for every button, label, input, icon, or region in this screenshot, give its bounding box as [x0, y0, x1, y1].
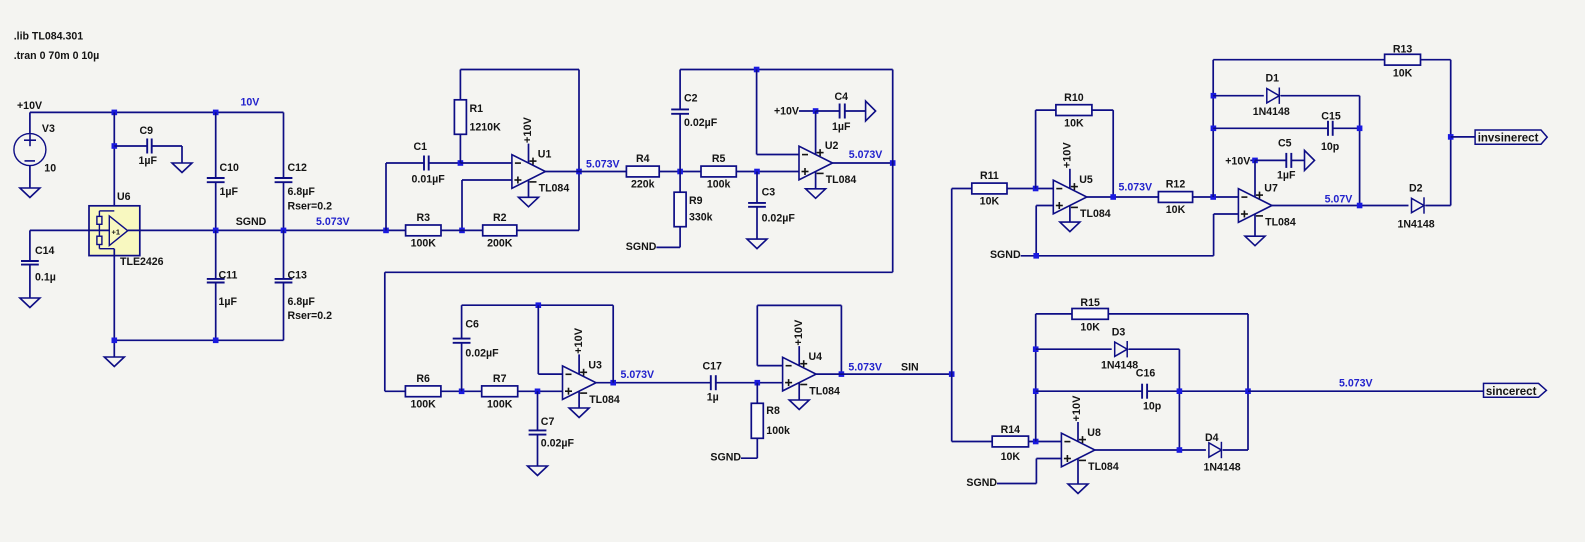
wire R2 to feedback	[517, 229, 579, 231]
svg-text:5.073V: 5.073V	[621, 369, 655, 381]
wire U2 - riser	[756, 70, 758, 155]
svg-text:10K: 10K	[1393, 68, 1413, 80]
wire SIN riser	[951, 189, 953, 442]
wire U3 feedback top	[462, 304, 614, 306]
wire R6 left lead	[385, 390, 406, 392]
wire R3-R2 link	[441, 229, 483, 231]
svg-text:0.02µF: 0.02µF	[465, 347, 499, 359]
diode D1	[1267, 88, 1280, 104]
wire SGND rail	[128, 229, 406, 231]
node +10V rail / C10 column	[213, 110, 219, 116]
svg-text:R8: R8	[766, 405, 780, 417]
wire C1 riser	[385, 163, 387, 230]
resistor R4	[626, 153, 659, 191]
svg-text:+10V: +10V	[17, 100, 42, 112]
wire D1-C15 riser	[1359, 96, 1361, 206]
svg-text:R6: R6	[416, 373, 430, 385]
svg-text:0.02µF: 0.02µF	[684, 117, 718, 129]
node +10V / C4 node	[813, 108, 819, 114]
svg-text:C13: C13	[288, 269, 308, 281]
svg-text:10: 10	[44, 162, 56, 174]
op-amp U8	[1061, 422, 1095, 484]
svg-text:D3: D3	[1112, 327, 1126, 339]
wire U6 output drop	[113, 249, 115, 357]
wire C6 bottom lead	[461, 343, 463, 392]
svg-text:U4: U4	[809, 351, 823, 363]
diode D4	[1209, 442, 1222, 458]
capacitor C5	[1277, 138, 1296, 182]
wire R14 to U8 -	[1029, 441, 1062, 443]
svg-text:TL084: TL084	[1265, 217, 1296, 229]
wire D1 left lead	[1213, 95, 1264, 97]
wire U7 non-inverting input	[1214, 213, 1239, 215]
wire C1 right lead	[429, 162, 461, 164]
svg-text:C6: C6	[465, 319, 479, 331]
wire U7 + riser	[1213, 214, 1215, 256]
wire R11 to U5 -	[1007, 188, 1053, 190]
resistor R11	[972, 170, 1007, 208]
capacitor C11	[207, 269, 238, 308]
resistor R5	[701, 153, 736, 191]
ground ground under U8	[1068, 484, 1088, 494]
svg-text:6.8µF: 6.8µF	[288, 186, 316, 198]
svg-text:D2: D2	[1409, 183, 1423, 195]
svg-text:1µF: 1µF	[220, 186, 239, 198]
ground ground below C3	[747, 239, 767, 249]
node U2 feedback tap	[754, 67, 760, 73]
svg-text:C7: C7	[541, 416, 555, 428]
svg-text:U3: U3	[588, 360, 602, 372]
wire U6 input drop	[113, 112, 115, 210]
node bottom rail / C11	[213, 338, 219, 344]
node invsinerect tap	[1448, 134, 1454, 140]
wire C3 top lead	[756, 172, 758, 203]
wire R8 top lead	[756, 383, 758, 404]
op-amp U4	[783, 346, 817, 400]
svg-text:5.073V: 5.073V	[586, 159, 620, 171]
svg-text:+10V: +10V	[774, 106, 799, 118]
node SGND / U5 riser	[1033, 253, 1039, 259]
resistor R12	[1158, 179, 1192, 217]
wire link down to R6	[384, 272, 386, 391]
ground ground under U1	[519, 197, 539, 207]
wire SGND row mid-right	[1021, 255, 1214, 257]
wire R14 left lead	[952, 441, 993, 443]
wire D2 right lead	[1425, 205, 1450, 207]
ground ground below C7	[528, 466, 548, 476]
svg-text:0.02µF: 0.02µF	[541, 438, 575, 450]
wire U4 output / SIN	[816, 373, 952, 375]
wire V3 top lead	[29, 112, 31, 133]
svg-text:C11: C11	[219, 269, 238, 281]
svg-text:+10V: +10V	[522, 116, 534, 143]
wire U1 + riser	[461, 180, 463, 230]
capacitor C14	[21, 245, 56, 284]
svg-text:TL084: TL084	[589, 394, 620, 406]
ground ground right of C5	[1305, 150, 1315, 170]
wire D1 right lead	[1281, 95, 1360, 97]
wire bottom rail	[114, 339, 283, 341]
op-amp U5	[1053, 169, 1087, 222]
rail splitter U6	[89, 206, 140, 256]
node U8 inverting node	[1033, 439, 1039, 445]
wire C13 bottom lead	[283, 283, 285, 341]
node D1 tap	[1211, 93, 1217, 99]
wire V3 bottom lead	[29, 166, 31, 188]
svg-text:+10V: +10V	[1062, 142, 1074, 169]
wire R10 right lead	[1092, 109, 1113, 111]
svg-text:220k: 220k	[631, 179, 655, 191]
svg-text:C3: C3	[762, 187, 776, 199]
node U7 inverting node	[1210, 194, 1216, 200]
svg-text:SGND: SGND	[626, 241, 657, 253]
wire U7 power stub	[1254, 160, 1256, 197]
svg-text:C15: C15	[1321, 111, 1341, 123]
op-amp U3	[563, 354, 597, 408]
wire C11 top lead	[215, 230, 217, 279]
svg-text:5.073V: 5.073V	[316, 216, 350, 228]
node C16 right node	[1177, 388, 1183, 394]
wire C15 left lead	[1213, 127, 1328, 129]
svg-text:U5: U5	[1079, 174, 1093, 186]
wire U5 output	[1087, 196, 1159, 198]
wire R8 bottom lead	[756, 438, 758, 458]
diode D3	[1115, 341, 1128, 357]
wire U4 - riser	[756, 305, 758, 365]
wire D3-C16 riser	[1178, 349, 1180, 450]
node SGND / U1 + riser	[459, 228, 465, 234]
resistor R9	[674, 192, 713, 227]
wire U3 feedback drop	[612, 305, 614, 383]
capacitor C7	[529, 416, 575, 450]
ground ground under U4	[789, 400, 809, 410]
wire C9 ground drop	[181, 146, 183, 163]
capacitor C6	[453, 319, 499, 360]
svg-text:SGND: SGND	[966, 477, 997, 489]
wire U1 non-inverting input	[462, 179, 512, 181]
svg-text:R12: R12	[1166, 179, 1186, 191]
svg-text:5.073V: 5.073V	[848, 362, 882, 374]
node U5 inverting node	[1033, 186, 1039, 192]
capacitor C1	[412, 141, 446, 186]
svg-text:100k: 100k	[766, 425, 790, 437]
svg-text:100K: 100K	[411, 238, 437, 250]
wire C10 top lead	[215, 112, 217, 178]
svg-text:R9: R9	[689, 195, 703, 207]
wire U2 feedback right	[892, 70, 894, 164]
wire U7 output	[1272, 205, 1409, 207]
svg-text:invsinerect: invsinerect	[1478, 132, 1539, 144]
wire C9 right lead	[152, 145, 182, 147]
node bottom rail / U6	[112, 338, 118, 344]
wire C4 right lead	[845, 110, 866, 112]
wire D4 right lead	[1223, 449, 1248, 451]
ground ground below C14	[20, 298, 40, 308]
svg-text:D4: D4	[1205, 432, 1219, 444]
ground ground under U2	[806, 189, 826, 199]
wire U2 output	[833, 162, 893, 164]
wire C3 bottom lead	[756, 207, 758, 239]
wire SGND into U6	[30, 229, 109, 231]
resistor R2	[483, 212, 517, 250]
capacitor C3	[748, 187, 795, 225]
wire C11 bottom lead	[215, 283, 217, 341]
svg-text:TL084: TL084	[539, 183, 570, 195]
svg-text:R13: R13	[1393, 44, 1413, 56]
svg-text:10K: 10K	[1080, 321, 1100, 333]
node SIN node	[949, 371, 955, 377]
wire U3 inverting input	[538, 373, 562, 375]
wire U5 + riser	[1035, 206, 1037, 256]
svg-text:+10V: +10V	[1071, 395, 1083, 422]
wire SGND stub at R9	[656, 246, 680, 248]
resistor R6	[405, 373, 441, 411]
svg-text:R10: R10	[1064, 92, 1084, 104]
svg-text:10K: 10K	[980, 196, 1000, 208]
wire SGND stub at R8	[741, 457, 757, 459]
svg-text:Rser=0.2: Rser=0.2	[288, 200, 333, 212]
wire C13 top lead	[283, 230, 285, 279]
node U3 output node	[610, 380, 616, 386]
svg-text:R7: R7	[493, 373, 507, 385]
node R7 / C7 node	[535, 389, 541, 395]
svg-text:SGND: SGND	[236, 216, 267, 228]
svg-text:1µF: 1µF	[139, 155, 158, 167]
svg-text:6.8µF: 6.8µF	[288, 296, 316, 308]
svg-text:100K: 100K	[410, 399, 436, 411]
svg-text:C17: C17	[703, 361, 723, 373]
wire U1 inverting input	[460, 162, 512, 164]
capacitor C2	[671, 93, 718, 130]
wire U4 inverting input	[757, 365, 782, 367]
wire R7 to U3 +	[518, 390, 563, 392]
wire C10 bottom lead	[215, 182, 217, 230]
capacitor C10	[207, 162, 239, 198]
wire R13 right lead	[1421, 59, 1451, 61]
svg-text:10p: 10p	[1321, 141, 1340, 153]
wire U8 feedback left	[1035, 314, 1037, 442]
svg-text:1210K: 1210K	[470, 122, 502, 134]
node SGND / C12	[281, 228, 287, 234]
wire link down from U2	[892, 163, 894, 272]
svg-text:1N4148: 1N4148	[1204, 462, 1241, 474]
node R5 / C3 node	[754, 169, 760, 175]
resistor R10	[1056, 92, 1092, 130]
ground ground under U3	[569, 408, 589, 418]
wire R10 left lead	[1036, 109, 1056, 111]
capacitor C4	[832, 91, 851, 133]
svg-text:100k: 100k	[707, 179, 731, 191]
wire C16 right lead	[1147, 390, 1248, 392]
wire R10 right riser	[1112, 110, 1114, 197]
svg-text:100K: 100K	[487, 399, 513, 411]
wire U3 output	[596, 382, 711, 384]
wire R1 bottom lead	[459, 134, 461, 163]
node U5 output node	[1110, 194, 1116, 200]
svg-text:TL084: TL084	[1088, 461, 1119, 473]
wire U8 + riser	[1035, 459, 1037, 484]
wire C5 right lead	[1291, 159, 1304, 161]
wire C12 top lead	[283, 112, 285, 178]
capacitor C12	[275, 162, 332, 213]
svg-text:C12: C12	[288, 162, 308, 174]
svg-text:1N4148: 1N4148	[1253, 106, 1290, 118]
wire U1 feedback right	[578, 70, 580, 231]
node U2 output node	[890, 160, 896, 166]
svg-text:5.073V: 5.073V	[1119, 182, 1153, 194]
ground ground below V3	[20, 188, 40, 198]
svg-text:5.07V: 5.07V	[1325, 194, 1353, 206]
op-amp U2	[799, 146, 833, 189]
ground ground under U7	[1245, 236, 1265, 246]
node C15 tap	[1211, 126, 1217, 132]
wire R15 right riser	[1247, 314, 1249, 450]
node C15 right node	[1357, 126, 1363, 132]
wire R9 top lead	[679, 172, 681, 193]
svg-text:1µF: 1µF	[1277, 170, 1296, 182]
port invsinerect	[1475, 130, 1547, 144]
wire to sincerect port	[1248, 390, 1484, 392]
svg-text:C4: C4	[835, 91, 849, 103]
capacitor C15	[1321, 111, 1341, 153]
wire C2 bottom lead	[679, 114, 681, 172]
resistor R13	[1385, 44, 1421, 80]
wire R4 to node	[659, 171, 701, 173]
wire U1 feedback top	[460, 69, 579, 71]
capacitor C13	[275, 269, 332, 322]
node C9 tap	[112, 143, 118, 149]
svg-text:R4: R4	[636, 153, 650, 165]
svg-text:SIN: SIN	[901, 362, 919, 374]
wire U8 output	[1095, 449, 1206, 451]
wire U2 power stub	[815, 111, 817, 155]
wire R13 right riser	[1450, 60, 1452, 206]
svg-text:U7: U7	[1264, 183, 1278, 195]
wire C4 left lead	[816, 110, 840, 112]
svg-text:TLE2426: TLE2426	[120, 256, 164, 268]
svg-text:10p: 10p	[1143, 401, 1162, 413]
wire R13 left lead	[1213, 59, 1384, 61]
svg-text:R2: R2	[493, 212, 507, 224]
wire C7 top lead	[537, 391, 539, 430]
node D3 tap	[1033, 346, 1039, 352]
node U4 output node	[839, 371, 845, 377]
wire D3 left lead	[1036, 348, 1112, 350]
svg-text:C10: C10	[220, 162, 240, 174]
node R6/R7/C6 node	[459, 389, 465, 395]
svg-text:0.02µF: 0.02µF	[762, 213, 796, 225]
wire C2 top lead	[679, 70, 681, 110]
svg-text:C16: C16	[1136, 368, 1156, 380]
svg-text:5.073V: 5.073V	[1339, 378, 1373, 390]
wire R6-R7 link	[441, 390, 482, 392]
ground ground below U6 rail	[104, 357, 124, 367]
wire link across	[385, 271, 893, 273]
wire U4 feedback top	[757, 304, 841, 306]
svg-text:.tran 0 70m 0 10µ: .tran 0 70m 0 10µ	[14, 50, 100, 62]
svg-text:R11: R11	[980, 170, 999, 182]
wire U2 feedback top	[680, 69, 893, 71]
svg-text:1µF: 1µF	[832, 121, 851, 133]
resistor R14	[992, 424, 1028, 463]
svg-text:C2: C2	[684, 93, 698, 105]
svg-text:10K: 10K	[1166, 204, 1186, 216]
svg-text:0.1µ: 0.1µ	[35, 272, 56, 284]
wire C6 top lead	[461, 305, 463, 338]
wire to invsinerect port	[1451, 136, 1475, 138]
wire R1 top lead	[459, 70, 461, 100]
svg-text:C1: C1	[414, 141, 428, 153]
wire R15 right lead	[1108, 313, 1248, 315]
wire C5 left lead	[1255, 159, 1286, 161]
svg-text:U1: U1	[538, 149, 552, 161]
svg-text:+1: +1	[112, 228, 121, 237]
ground ground at C9	[172, 163, 192, 173]
svg-text:10K: 10K	[1064, 117, 1084, 129]
wire U2 inverting input	[757, 154, 799, 156]
resistor R3	[406, 212, 441, 250]
svg-text:R15: R15	[1080, 297, 1100, 309]
resistor R8	[751, 403, 790, 438]
svg-text:U2: U2	[825, 140, 839, 152]
op-amp U7	[1238, 189, 1272, 237]
svg-text:TL084: TL084	[826, 174, 857, 186]
node R4/R5/C2/R9 node	[677, 169, 683, 175]
svg-text:10V: 10V	[241, 97, 260, 109]
wire U1 output to R4	[545, 171, 626, 173]
resistor R7	[482, 373, 518, 411]
voltage source V3	[14, 134, 46, 166]
svg-text:0.01µF: 0.01µF	[412, 174, 446, 186]
svg-text:R3: R3	[417, 212, 431, 224]
ground ground right of C4	[866, 101, 876, 121]
node C17 / R8 node	[755, 380, 761, 386]
diode D2	[1412, 197, 1425, 213]
wire C12 bottom lead	[283, 182, 285, 230]
svg-text:SGND: SGND	[710, 452, 741, 464]
wire C14 bottom lead	[29, 265, 31, 298]
svg-text:C9: C9	[140, 125, 154, 137]
wire SGND stub at U8	[997, 483, 1036, 485]
node sincerect line node	[1245, 388, 1251, 394]
wire R11 left lead	[952, 188, 972, 190]
svg-text:1µF: 1µF	[219, 296, 238, 308]
svg-text:TL084: TL084	[809, 385, 840, 397]
node U7 output node	[1357, 203, 1363, 209]
wire +10V to C4 node	[799, 110, 816, 112]
wire C7 bottom lead	[537, 435, 539, 466]
op-amp U1	[512, 144, 546, 198]
node U8 output node	[1177, 447, 1183, 453]
wire C14 top lead	[29, 230, 31, 261]
wire R5 to U2 +	[736, 171, 799, 173]
wire U5 non-inverting input	[1036, 205, 1053, 207]
svg-text:R1: R1	[470, 103, 484, 115]
wire C1 left lead	[386, 162, 424, 164]
capacitor C17	[703, 361, 723, 404]
svg-text:+10V: +10V	[1225, 155, 1250, 167]
svg-text:+10V: +10V	[793, 319, 805, 346]
wire +10V to C5 node	[1250, 159, 1255, 161]
svg-text:SGND: SGND	[990, 249, 1021, 261]
node SGND / C1 riser	[383, 228, 389, 234]
svg-text:Rser=0.2: Rser=0.2	[288, 310, 333, 322]
wire +10V rail	[30, 111, 284, 113]
port sincerect	[1484, 383, 1547, 397]
capacitor C9	[139, 125, 158, 167]
resistor R15	[1072, 297, 1108, 333]
svg-text:U6: U6	[117, 191, 131, 203]
